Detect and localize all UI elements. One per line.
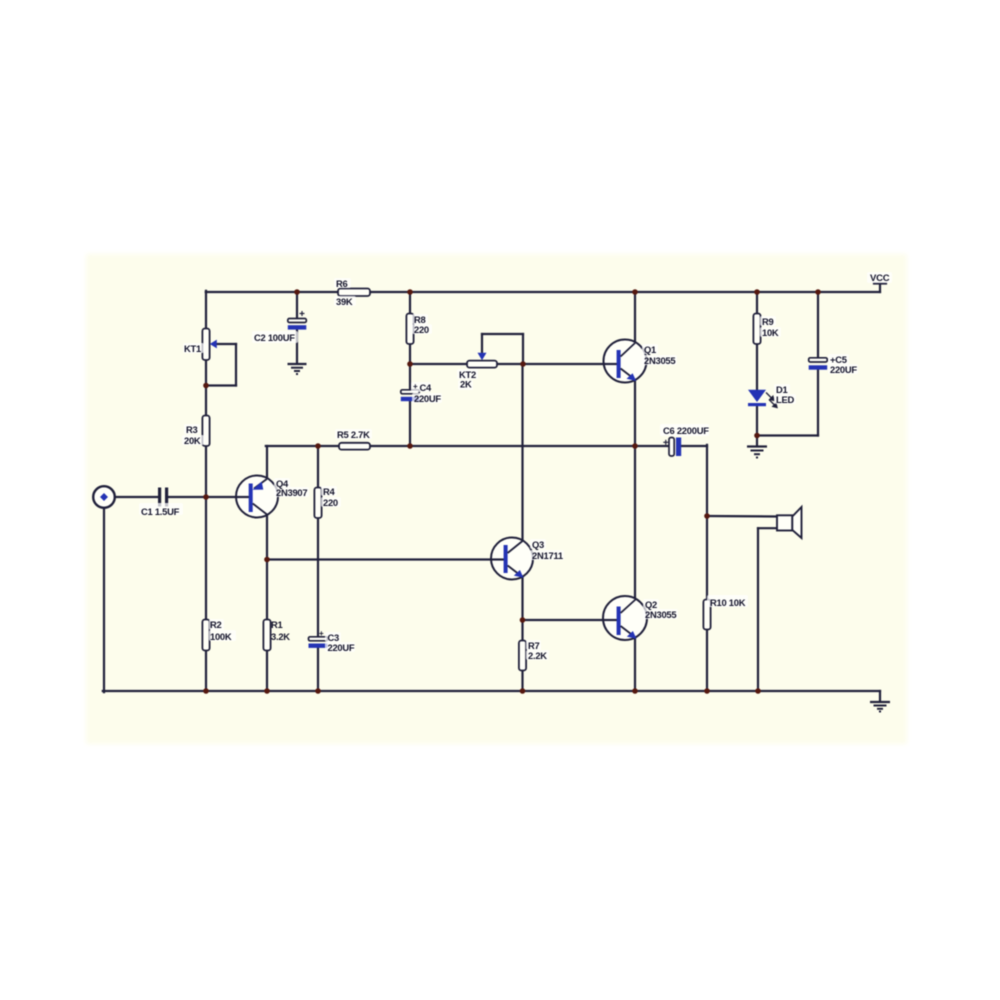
svg-text:10K: 10K bbox=[762, 327, 779, 338]
label Q3 bbox=[532, 539, 563, 561]
svg-text:R3: R3 bbox=[186, 424, 198, 435]
wire R7 to bottom rail bbox=[521, 670, 523, 691]
junction C2-VCC rail bbox=[294, 289, 300, 295]
label Q4 bbox=[276, 478, 307, 498]
resistor R1 bbox=[263, 620, 270, 651]
wire Q4 collector down bbox=[266, 514, 268, 620]
wire KT1 wiper horizontal bbox=[216, 343, 237, 345]
svg-text:R6: R6 bbox=[336, 278, 348, 289]
junction C4 bottom bbox=[407, 443, 413, 449]
wire D1 to ground node bbox=[756, 406, 758, 436]
wire C4 to feedback line bbox=[409, 402, 411, 447]
junction speaker-R10 node bbox=[704, 513, 710, 519]
svg-text:2N3907: 2N3907 bbox=[276, 487, 307, 498]
svg-text:220: 220 bbox=[414, 324, 429, 335]
wire KT1 to R3 bbox=[205, 359, 207, 416]
svg-text:2N3055: 2N3055 bbox=[645, 609, 676, 620]
wire R1 to bottom rail bbox=[266, 650, 268, 691]
label R8 bbox=[414, 314, 429, 335]
wire corner down to speaker node bbox=[706, 445, 708, 516]
wire speaker return down bbox=[757, 528, 759, 691]
junction R3-input-Q4 base bbox=[203, 494, 209, 500]
wire KT1 loop vertical bbox=[235, 344, 237, 386]
input jack J1 bbox=[93, 486, 115, 508]
potentiometer KT2 bbox=[467, 353, 497, 368]
wire feedback line mid segment bbox=[370, 445, 669, 447]
capacitor C3 bbox=[309, 637, 328, 648]
svg-text:C1 1.5UF: C1 1.5UF bbox=[141, 506, 180, 517]
junction Q1 collector-VCC rail bbox=[632, 289, 638, 295]
svg-text:220UF: 220UF bbox=[830, 364, 857, 375]
wire R8 top lead bbox=[409, 292, 411, 314]
wire KT2 to Q1 base bbox=[497, 363, 605, 365]
junction Q3 emitter-Q2 base bbox=[520, 617, 526, 623]
junction R4 top bbox=[315, 443, 321, 449]
junction Q1 emitter-C6 bbox=[632, 443, 638, 449]
junction speaker return-ground rail bbox=[755, 688, 761, 694]
capacitor C2 bbox=[288, 311, 307, 330]
wire KT2 node to Q3 collector bbox=[521, 364, 523, 541]
wire feedback line left segment bbox=[266, 445, 339, 447]
wire top rail right segment bbox=[370, 291, 880, 293]
wire C1 to Q4 base bbox=[169, 496, 249, 498]
ground under C2 bbox=[288, 364, 307, 374]
wire left column top (rail to KT1) bbox=[205, 291, 207, 329]
svg-text:2K: 2K bbox=[460, 379, 472, 390]
label R9 bbox=[762, 316, 779, 338]
label R2 bbox=[210, 619, 232, 642]
wire R9 to D1 bbox=[756, 343, 758, 390]
svg-text:R1: R1 bbox=[271, 619, 283, 630]
svg-text:KT1: KT1 bbox=[184, 343, 201, 354]
svg-text:+: + bbox=[413, 382, 418, 391]
wire C5 bottom lead bbox=[817, 370, 819, 436]
junction R2-ground rail bbox=[203, 688, 209, 694]
svg-text:2N3055: 2N3055 bbox=[644, 355, 675, 366]
speaker SP1 bbox=[777, 507, 802, 538]
svg-text:VCC: VCC bbox=[870, 273, 890, 284]
junction R9-VCC rail bbox=[754, 289, 760, 295]
wire C3 to bottom rail bbox=[317, 648, 319, 692]
wire R10 to bottom rail bbox=[706, 629, 708, 691]
label C4 bbox=[413, 382, 441, 404]
ground under D1 C5 bbox=[747, 447, 767, 458]
resistor R3 bbox=[202, 416, 209, 447]
capacitor C4 bbox=[401, 390, 420, 401]
svg-text:R5 2.7K: R5 2.7K bbox=[337, 429, 370, 440]
label R7 bbox=[528, 640, 547, 661]
resistor R4 bbox=[314, 488, 321, 519]
svg-text:20K: 20K bbox=[184, 435, 201, 446]
wire Q3 emitter node to Q2 base bbox=[523, 619, 605, 621]
junction R8-VCC rail bbox=[407, 289, 413, 295]
svg-text:+: + bbox=[319, 629, 324, 638]
wire Q3 emitter down bbox=[521, 577, 523, 642]
wire input jack down bbox=[103, 508, 105, 692]
wire VCC stub bbox=[879, 284, 881, 293]
svg-text:2.2K: 2.2K bbox=[528, 650, 547, 661]
paper background bbox=[86, 254, 907, 744]
wire driver line (Q4 collector to Q3 base) bbox=[267, 558, 492, 560]
wire R8 to C4 bbox=[409, 343, 411, 390]
wire Q1 emitter down bbox=[634, 381, 636, 599]
junction R10-ground rail bbox=[704, 688, 710, 694]
junction R1-ground rail bbox=[264, 688, 270, 694]
resistor R6 bbox=[338, 289, 370, 297]
label D1 bbox=[776, 384, 794, 405]
wire bias line R8 to KT2 bbox=[410, 363, 468, 365]
wire C2 top bbox=[296, 292, 298, 319]
svg-text:C2 100UF: C2 100UF bbox=[254, 332, 295, 343]
wire bottom right ground stub bbox=[879, 691, 881, 701]
wire speaker node to speaker bbox=[707, 515, 778, 518]
svg-text:R4: R4 bbox=[323, 486, 336, 497]
wire Q1 collector to top rail bbox=[634, 292, 636, 343]
capacitor C5 bbox=[809, 358, 828, 370]
resistor R2 bbox=[202, 620, 209, 651]
label R4 bbox=[323, 486, 338, 508]
label Q2 bbox=[645, 599, 676, 620]
svg-text:R9: R9 bbox=[762, 316, 774, 327]
svg-text:R2: R2 bbox=[210, 619, 222, 630]
resistor R10 bbox=[703, 600, 710, 630]
label Q1 bbox=[644, 344, 675, 366]
wire VCC bar bbox=[874, 282, 886, 284]
svg-text:220UF: 220UF bbox=[328, 642, 355, 653]
svg-text:Q1: Q1 bbox=[644, 344, 656, 355]
resistor R9 bbox=[753, 314, 760, 345]
transistor Q2 bbox=[603, 596, 647, 640]
wire KT2 wiper vertical bbox=[481, 334, 483, 353]
wire C5 top lead bbox=[817, 292, 819, 358]
junction R7-ground rail bbox=[520, 688, 526, 694]
label C3 bbox=[319, 629, 355, 653]
LED D1 bbox=[748, 390, 777, 408]
wire R9 top lead bbox=[756, 292, 758, 314]
wire C6 to speaker corner bbox=[681, 445, 707, 447]
junction D1-C5 ground node bbox=[754, 433, 760, 439]
svg-text:C6 2200UF: C6 2200UF bbox=[663, 425, 709, 436]
capacitor C1 bbox=[158, 488, 168, 507]
wire Q4 emitter to feedback line bbox=[266, 446, 268, 479]
wire C2 to ground bbox=[296, 329, 298, 363]
wire Q2 emitter to bottom rail bbox=[634, 639, 636, 692]
svg-text:LED: LED bbox=[776, 394, 794, 405]
svg-text:100K: 100K bbox=[210, 631, 232, 642]
capacitor C6 bbox=[663, 438, 681, 457]
svg-text:2N1711: 2N1711 bbox=[532, 550, 563, 561]
svg-text:220: 220 bbox=[323, 497, 338, 508]
junction Q2 emitter-ground rail bbox=[632, 688, 638, 694]
svg-text:39K: 39K bbox=[336, 296, 353, 307]
wire speaker return horizontal bbox=[758, 527, 778, 529]
label R1 bbox=[271, 619, 290, 642]
junction C3-ground rail bbox=[315, 688, 321, 694]
wire KT2 wiper top horizontal bbox=[482, 333, 523, 335]
wire bottom rail bbox=[103, 690, 880, 692]
label R6 bbox=[336, 278, 353, 307]
resistor R8 bbox=[406, 314, 413, 345]
junction KT1 loop bbox=[203, 383, 209, 389]
label R3 bbox=[184, 424, 201, 446]
wire KT1 loop bottom bbox=[206, 384, 236, 386]
potentiometer KT1 bbox=[202, 329, 216, 361]
svg-text:C4: C4 bbox=[420, 382, 433, 393]
ground bottom right bbox=[870, 702, 890, 712]
wire ground node stub bbox=[756, 436, 758, 446]
junction KT2 wiper node bbox=[520, 361, 526, 367]
svg-text:Q3: Q3 bbox=[532, 539, 544, 550]
junction C5-VCC rail bbox=[815, 289, 821, 295]
junction Q4 collector-driver line bbox=[264, 557, 270, 563]
wire input jack to C1 bbox=[115, 496, 159, 498]
resistor R7 bbox=[519, 641, 526, 671]
wire R4 top lead bbox=[317, 446, 319, 488]
svg-text:220UF: 220UF bbox=[414, 393, 441, 404]
junction R8-C4-KT2 bbox=[407, 361, 413, 367]
wire R4 to C3 bbox=[317, 517, 319, 637]
wire R3 to input node bbox=[205, 445, 207, 620]
transistor Q1 bbox=[604, 340, 647, 383]
label C5 bbox=[830, 354, 857, 375]
resistor R5 bbox=[339, 443, 370, 450]
transistor Q4 bbox=[236, 476, 278, 518]
wire KT2 wiper loop down bbox=[522, 334, 524, 364]
svg-text:R10 10K: R10 10K bbox=[710, 597, 746, 608]
transistor Q3 bbox=[491, 538, 533, 580]
wire R2 to bottom rail bbox=[205, 650, 207, 691]
wire top rail left segment bbox=[206, 291, 338, 293]
wire R10 top lead bbox=[706, 516, 708, 600]
wire C5 to ground node bbox=[757, 434, 818, 436]
svg-text:3.2K: 3.2K bbox=[271, 631, 290, 642]
label KT2 bbox=[459, 369, 476, 390]
